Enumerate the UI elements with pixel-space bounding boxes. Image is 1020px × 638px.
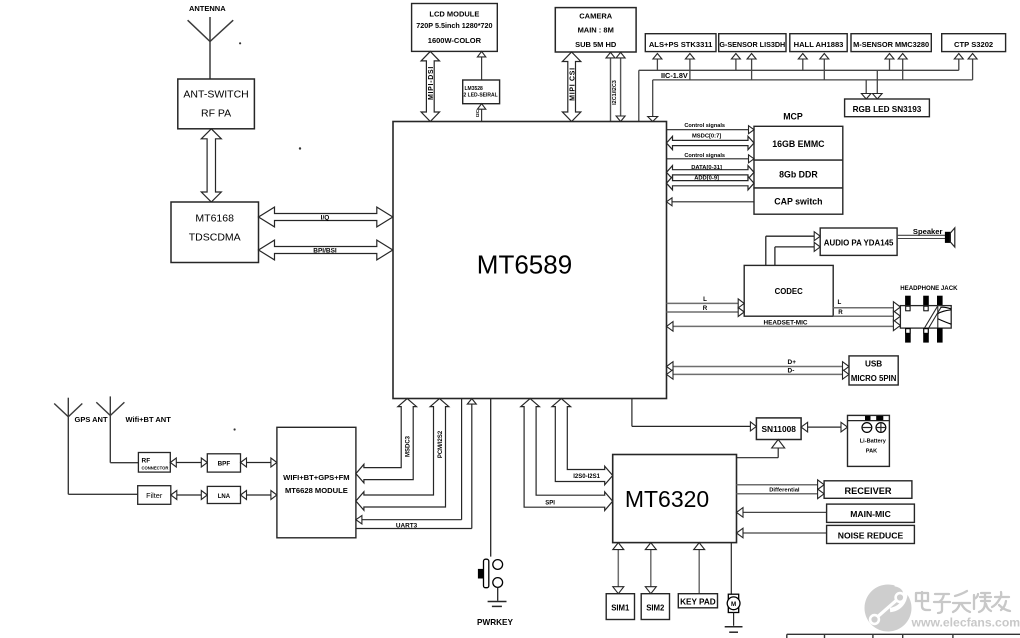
svg-text:HEADSET-MIC: HEADSET-MIC (763, 320, 807, 327)
svg-text:MT6168: MT6168 (195, 213, 234, 225)
svg-text:8Gb DDR: 8Gb DDR (779, 169, 818, 179)
block NOISE REDUCE (827, 525, 915, 543)
wire control signals 1 (667, 126, 755, 134)
svg-text:ANTENNA: ANTENNA (189, 4, 226, 13)
wire MAIN-MIC to MT6320 (737, 508, 827, 518)
wire M-sensor pin 1 (885, 54, 894, 71)
wire ALS pin 1 (653, 54, 662, 71)
wire M-sensor pin 2 (898, 54, 907, 80)
svg-text:HALL AH1883: HALL AH1883 (794, 40, 844, 49)
svg-text:MICRO 5PIN: MICRO 5PIN (851, 374, 897, 383)
wire camera I2C line 2 (616, 52, 625, 121)
wire CAP switch to MT6589 (667, 198, 755, 206)
wire camera I2C line 1 (606, 52, 615, 121)
wire GPS ANT to Filter (68, 493, 137, 495)
arrow DATA[0-31] (667, 166, 755, 179)
wire G-sensor pin 1 (731, 54, 740, 71)
svg-text:SN11008: SN11008 (761, 424, 796, 434)
block RF CONNECTOR (138, 453, 170, 473)
svg-text:MAIN : 8M: MAIN : 8M (578, 26, 614, 35)
block CTP S3202 (942, 34, 1006, 52)
svg-text:SIM2: SIM2 (646, 603, 665, 612)
svg-text:MIPI CSI: MIPI CSI (569, 67, 576, 101)
wire PWRKEY line (490, 399, 492, 557)
block BPF (207, 454, 240, 472)
watermark elecfans logo (865, 584, 912, 632)
antenna GPS ANT (54, 398, 82, 495)
wire LCD to LM3528 (477, 51, 485, 80)
wire UART3 (356, 399, 462, 524)
wire HALL pin 1 (798, 54, 807, 71)
watermark chinese characters (916, 591, 1010, 613)
block G-SENSOR LIS3DH (719, 34, 786, 52)
svg-text:R: R (838, 309, 843, 316)
svg-text:SPI: SPI (545, 501, 555, 507)
block Filter (138, 486, 171, 505)
ground PWRKEY (488, 602, 507, 607)
block ANT-SWITCH RF PA (178, 79, 255, 129)
block SIM1 (606, 594, 634, 620)
svg-text:Control signals: Control signals (684, 153, 725, 159)
wire SIM2 link (645, 543, 656, 594)
wire speaker line (897, 235, 945, 238)
svg-text:LCD MODULE: LCD MODULE (429, 9, 479, 18)
svg-text:TDSCDMA: TDSCDMA (189, 232, 241, 244)
block USB MICRO 5PIN (849, 356, 898, 385)
block SIM2 (641, 594, 669, 620)
svg-text:BPF: BPF (218, 461, 231, 468)
svg-text:16GB EMMC: 16GB EMMC (772, 139, 825, 149)
wire MT6589 to LM3528 (477, 104, 485, 122)
svg-text:BPI/BSI: BPI/BSI (313, 247, 337, 254)
svg-text:SUB 5M HD: SUB 5M HD (575, 40, 617, 49)
wire HALL pin 2 (820, 54, 829, 80)
svg-text:CONNECTOR: CONNECTOR (142, 465, 169, 470)
antenna Wifi+BT ANT (96, 396, 124, 462)
svg-text:Speaker: Speaker (913, 227, 943, 236)
arrow SPI (521, 399, 613, 511)
wire IIC bus line 1 (639, 54, 959, 122)
svg-text:D+: D+ (788, 359, 797, 366)
svg-text:SIM1: SIM1 (611, 603, 630, 612)
svg-text:CTP S3202: CTP S3202 (954, 40, 993, 49)
svg-text:CAP switch: CAP switch (774, 197, 822, 207)
block AUDIO PA YDA145 (820, 228, 897, 255)
svg-text:PWRKEY: PWRKEY (477, 618, 513, 627)
svg-text:M: M (731, 601, 736, 608)
antenna ANTENNA (188, 17, 234, 79)
wire SIM1 link (613, 543, 624, 594)
svg-text:ANT-SWITCH: ANT-SWITCH (183, 89, 248, 101)
block MT6320 PMIC (613, 455, 737, 543)
svg-text:Differential: Differential (769, 487, 800, 493)
block ALS+PS STK3311 (645, 34, 716, 52)
svg-text:RECEIVER: RECEIVER (845, 486, 892, 496)
svg-text:RF PA: RF PA (201, 108, 231, 120)
svg-text:www.elecfans.com: www.elecfans.com (911, 616, 1020, 630)
wire R to jack (833, 315, 900, 317)
svg-text:M-SENSOR MMC3280: M-SENSOR MMC3280 (853, 40, 929, 49)
wire RGB LED drop 1 (861, 80, 871, 99)
wire CTP pin 2 (968, 54, 977, 60)
block CAMERA (555, 8, 636, 52)
headphone jack symbol (900, 296, 951, 343)
wire Wifi ANT to RF connector (110, 462, 138, 464)
svg-text:2 LED-SEIRAL: 2 LED-SEIRAL (464, 93, 498, 99)
block Li-Battery PAK (848, 415, 890, 466)
svg-text:USB: USB (865, 360, 882, 369)
block CODEC (744, 265, 833, 316)
block SN11008 (756, 418, 801, 440)
svg-text:G-SENSOR LIS3DH: G-SENSOR LIS3DH (719, 40, 785, 49)
wire vibrator link (730, 543, 732, 595)
block CAP switch (754, 188, 843, 214)
svg-text:PAK: PAK (866, 449, 877, 455)
wire RGB LED drop 2 (873, 70, 883, 99)
block LNA (207, 486, 240, 503)
wire IIC bus line 2 (648, 54, 973, 122)
wire MT6320 to SN11008 (737, 440, 785, 458)
wire KEY PAD link (694, 543, 705, 594)
block 8Gb DDR (754, 160, 843, 188)
block 16GB EMMC (754, 126, 843, 160)
svg-text:CODEC: CODEC (775, 287, 804, 296)
arrow I/Q bus (259, 207, 393, 227)
wire codec to audio PA 1 (766, 232, 820, 266)
svg-text:720P 5.5inch 1280*720: 720P 5.5inch 1280*720 (416, 21, 492, 30)
wire D+ (667, 362, 850, 372)
svg-text:L: L (838, 299, 842, 306)
block RECEIVER (824, 481, 912, 499)
svg-text:KEY PAD: KEY PAD (680, 597, 716, 606)
block MT6168 TDSCDMA (171, 202, 259, 263)
svg-text:CAMERA: CAMERA (579, 11, 612, 20)
ground vibrator (725, 627, 743, 633)
svg-text:L: L (703, 296, 707, 303)
svg-text:Filter: Filter (146, 491, 163, 500)
svg-text:I/Q: I/Q (321, 214, 330, 221)
svg-text:MIPI-DSI: MIPI-DSI (428, 66, 435, 100)
block MT6628 WIFI module (277, 427, 356, 538)
arrow I2S0-I2S1 (552, 399, 613, 485)
arrow ADD[0-9] (667, 177, 755, 190)
svg-text:I2C: I2C (475, 109, 480, 117)
wire G-sensor pin 2 (747, 54, 756, 80)
block MAIN-MIC (827, 504, 915, 522)
svg-text:HEADPHONE JACK: HEADPHONE JACK (900, 285, 958, 292)
block HALL AH1883 (790, 34, 847, 52)
svg-text:LNA: LNA (218, 494, 231, 500)
svg-text:RGB LED SN3193: RGB LED SN3193 (853, 105, 922, 114)
wire MT6628 to MT6589 aux (356, 399, 476, 529)
wire NOISE REDUCE to MT6320 (737, 528, 827, 538)
speaker symbol (945, 228, 955, 247)
wire control signals 2 (667, 155, 755, 163)
arrow MSDC[0:7] (667, 136, 755, 149)
svg-text:D-: D- (788, 367, 795, 374)
arrow MSDC3 (356, 399, 417, 483)
block KEY PAD (678, 594, 717, 608)
wire L to codec (667, 299, 745, 308)
wire BPF to MT6628 (241, 458, 277, 467)
arrow ANT-SWITCH to MT6168 (201, 129, 221, 202)
wire LNA to MT6628 (241, 491, 277, 500)
svg-text:NOISE REDUCE: NOISE REDUCE (838, 531, 904, 541)
svg-text:R: R (703, 305, 708, 312)
svg-text:PCM/I2S2: PCM/I2S2 (438, 430, 444, 458)
svg-text:1600W-COLOR: 1600W-COLOR (428, 36, 482, 45)
arrow PCM/I2S2 (356, 399, 449, 511)
block M-SENSOR MMC3280 (851, 34, 931, 52)
svg-text:IIC-1.8V: IIC-1.8V (661, 71, 688, 80)
wire codec to audio PA 2 (775, 242, 820, 265)
svg-text:MT6628 MODULE: MT6628 MODULE (285, 486, 348, 495)
svg-text:MSDC3: MSDC3 (406, 435, 412, 457)
wire SN11008 to battery (801, 422, 847, 432)
svg-text:MCP: MCP (783, 112, 803, 122)
block LM3528 LED driver (463, 80, 500, 104)
svg-text:LM3528: LM3528 (465, 86, 484, 92)
power key switch (478, 559, 503, 601)
wire R to codec (667, 308, 745, 317)
vibrator motor M (727, 594, 740, 626)
svg-text:Wifi+BT ANT: Wifi+BT ANT (126, 415, 172, 424)
stray dot 2 (239, 42, 241, 44)
svg-text:MT6589: MT6589 (477, 250, 572, 280)
stray dot 3 (234, 428, 236, 430)
svg-text:ALS+PS STK3311: ALS+PS STK3311 (649, 40, 713, 49)
wire MT6589 to SN11008 (632, 399, 757, 431)
wire ALS pin 2 (685, 54, 694, 80)
wire CTP pin 1 (954, 54, 963, 60)
svg-text:GPS ANT: GPS ANT (75, 415, 108, 424)
arrow MIPI-DSI (421, 51, 439, 121)
svg-text:WIFI+BT+GPS+FM: WIFI+BT+GPS+FM (283, 473, 349, 482)
wire RF connector to BPF (170, 458, 207, 467)
svg-text:I2C1/I2C3: I2C1/I2C3 (612, 80, 618, 105)
arrow MIPI CSI (562, 52, 580, 122)
wire L to jack (833, 307, 900, 309)
table top edge (787, 634, 1020, 638)
arrow BPI/BSI bus (259, 240, 393, 260)
wire differential pair (737, 480, 825, 499)
stray dot 1 (299, 147, 301, 149)
svg-text:I2S0-I2S1: I2S0-I2S1 (573, 474, 600, 480)
svg-text:RF: RF (142, 457, 151, 464)
svg-text:Control signals: Control signals (684, 123, 725, 129)
svg-text:MAIN-MIC: MAIN-MIC (850, 509, 891, 519)
svg-text:MSDC[0:7]: MSDC[0:7] (692, 133, 721, 139)
block MT6589 SoC (393, 122, 667, 399)
svg-text:DATA[0-31]: DATA[0-31] (691, 165, 722, 171)
wire Filter to LNA (171, 491, 208, 500)
block LCD MODULE (412, 4, 498, 52)
svg-text:Li-Battery: Li-Battery (860, 439, 887, 445)
svg-text:MT6320: MT6320 (625, 486, 709, 512)
svg-text:ADD[0-9]: ADD[0-9] (694, 176, 719, 182)
wire D- (667, 370, 850, 380)
block RGB LED SN3193 (845, 99, 930, 117)
svg-text:AUDIO PA YDA145: AUDIO PA YDA145 (824, 238, 894, 247)
jack input arrowheads (893, 302, 900, 331)
wire HEADSET-MIC (667, 322, 901, 332)
